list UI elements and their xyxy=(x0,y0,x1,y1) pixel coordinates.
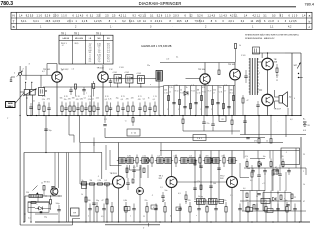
svg-text:4,2 1,1: 4,2 1,1 xyxy=(253,14,261,17)
svg-text:0,1: 0,1 xyxy=(176,57,178,59)
wires lower-left verticals xyxy=(30,202,32,222)
capacitor IF strip 6 xyxy=(227,106,230,108)
IF transformer box T102 xyxy=(126,75,133,83)
right cluster box part xyxy=(261,198,270,203)
wire IF lower rail xyxy=(43,86,160,88)
svg-text:C 31: C 31 xyxy=(219,91,223,93)
resistor IF strip 5 xyxy=(212,100,214,105)
svg-text:2,0 3: 2,0 3 xyxy=(173,14,179,17)
part rowA15 xyxy=(117,106,119,112)
part bandB10 xyxy=(189,158,195,164)
part rowA3 xyxy=(61,106,63,112)
svg-text:C 34: C 34 xyxy=(197,93,201,95)
part rowA4 xyxy=(64,107,67,109)
svg-text:1k: 1k xyxy=(256,196,258,198)
svg-text:4 103: 4 103 xyxy=(137,73,142,75)
part bottom19 xyxy=(265,207,267,213)
svg-text:1 103: 1 103 xyxy=(119,67,124,69)
part right-band5 xyxy=(270,162,272,167)
part below bus x245 xyxy=(243,120,246,122)
wire right band rail y168 xyxy=(244,167,306,169)
svg-text:0,2: 0,2 xyxy=(42,71,45,73)
part bottom8 xyxy=(154,208,157,210)
svg-text:x2: x2 xyxy=(169,91,171,93)
part bandB5 xyxy=(151,158,153,164)
wire TR102 emitter left down xyxy=(91,83,93,116)
part bandB11 xyxy=(199,158,201,164)
trimmer marks above boxes xyxy=(25,82,26,83)
right lower frame box xyxy=(281,148,300,165)
svg-text:1 W: 1 W xyxy=(109,69,113,71)
svg-text:470: 470 xyxy=(254,141,257,143)
part rowA20 xyxy=(144,106,146,112)
resistor IF strip 7 xyxy=(233,96,235,101)
bus junction dots xyxy=(27,115,28,116)
wire mid h2 xyxy=(105,137,265,139)
part bottom10 xyxy=(178,208,181,210)
svg-text:1 1 0: 1 1 0 xyxy=(37,14,43,17)
svg-text:DIAGRAM–SPRINGER: DIAGRAM–SPRINGER xyxy=(139,1,182,6)
polarized cap lower-left xyxy=(57,209,60,211)
svg-text:2: 2 xyxy=(303,171,304,173)
wire x292 vertical xyxy=(291,53,293,116)
wire IF strip drop 12 xyxy=(223,86,225,116)
right cluster verticals xyxy=(242,191,244,212)
wire antenna top vertical xyxy=(19,66,21,72)
part bandB right3 xyxy=(269,151,271,159)
svg-text:1: 1 xyxy=(200,109,201,111)
verticals mid right with resistors xyxy=(244,116,246,135)
svg-text:29,5: 29,5 xyxy=(177,20,182,23)
svg-text:C 13: C 13 xyxy=(153,96,157,98)
svg-text:6: 6 xyxy=(294,98,295,100)
svg-text:100: 100 xyxy=(164,90,167,92)
part right-band4 xyxy=(263,170,266,172)
part rowA21 xyxy=(148,107,151,109)
svg-text:25: 25 xyxy=(143,216,145,218)
svg-text:TR 201: TR 201 xyxy=(110,173,118,175)
part rowA17 xyxy=(127,106,129,112)
svg-text:0 · 1: 0 · 1 xyxy=(264,201,267,203)
svg-text:1k: 1k xyxy=(81,194,83,196)
transistor TR201 xyxy=(113,176,125,188)
svg-text:2,6 1: 2,6 1 xyxy=(67,20,73,23)
svg-text:Tb1 24,2: Tb1 24,2 xyxy=(61,69,70,71)
svg-text:10n: 10n xyxy=(263,156,266,158)
wire above transformer xyxy=(252,52,285,54)
svg-text:4 0,9 1: 4 0,9 1 xyxy=(155,20,163,23)
svg-text:R 27: R 27 xyxy=(208,90,212,92)
svg-text:1,2 0,5: 1,2 0,5 xyxy=(53,20,61,23)
svg-text:5 101: 5 101 xyxy=(241,55,246,57)
vertical x94b stub xyxy=(93,143,95,147)
svg-text:470: 470 xyxy=(68,98,71,100)
capacitor IF strip 5 xyxy=(216,102,219,104)
svg-text:WALL: WALL xyxy=(8,105,14,108)
title rule xyxy=(0,6,296,8)
cluster dots xyxy=(30,195,31,196)
part bandB7 xyxy=(165,158,171,164)
wire drop x110b xyxy=(109,150,111,166)
cap below bus x204 xyxy=(202,121,205,123)
svg-text:5: 5 xyxy=(167,109,168,111)
svg-text:250: 250 xyxy=(26,192,29,194)
label pointer box xyxy=(6,102,15,108)
wire mid h right xyxy=(240,134,306,136)
svg-text:R 10: R 10 xyxy=(175,90,179,92)
svg-text:R 23: R 23 xyxy=(121,96,125,98)
wire right band segment y158.5 xyxy=(250,158,265,160)
svg-text:1k: 1k xyxy=(180,90,182,92)
svg-text:× 2: × 2 xyxy=(262,182,264,185)
svg-text:2,2k: 2,2k xyxy=(142,156,145,158)
svg-text:470: 470 xyxy=(205,156,208,158)
part bottom14 xyxy=(214,208,217,210)
right lower cluster rail y190.5 xyxy=(240,190,265,192)
part right-band2 xyxy=(251,170,254,172)
svg-text:220: 220 xyxy=(281,156,284,158)
capacitor IF strip 3 xyxy=(194,102,197,104)
wire TR203 down xyxy=(231,187,233,222)
part rowA7 xyxy=(76,107,79,109)
part bottom13 xyxy=(206,207,208,213)
part bottom5 xyxy=(125,207,127,213)
wires to speaker xyxy=(275,96,280,98)
part rowA6 xyxy=(73,106,75,112)
parts between TR202 TR203 xyxy=(194,160,196,165)
right cluster label boxes xyxy=(246,208,253,212)
part rowA16 xyxy=(121,107,124,109)
svg-text:10n: 10n xyxy=(165,190,168,192)
small part left of antenna xyxy=(11,76,15,78)
svg-text:5,2 6: 5,2 6 xyxy=(157,14,163,17)
wire x301 vertical upper xyxy=(300,53,302,116)
boxed label 22 xyxy=(219,116,226,122)
wire TR102 down xyxy=(102,82,104,116)
svg-text:22n: 22n xyxy=(147,65,150,67)
part rowA18 xyxy=(132,106,134,112)
left frame vertical x24 xyxy=(23,153,25,223)
svg-text:6,8k: 6,8k xyxy=(175,85,178,87)
svg-text:1k: 1k xyxy=(41,183,43,185)
wire mid h1 xyxy=(183,130,240,132)
svg-text:330: 330 xyxy=(72,97,75,99)
part rowA8 xyxy=(81,106,83,112)
vertical x80 from mid xyxy=(79,143,81,185)
left outer vertical x20 xyxy=(19,75,21,225)
tuning capacitor box C1b xyxy=(30,90,35,96)
resistor IF strip 2 xyxy=(179,100,181,105)
wire IF strip drop 11 xyxy=(217,86,219,116)
speaker xyxy=(279,96,283,104)
svg-text:220: 220 xyxy=(213,90,216,92)
svg-text:470: 470 xyxy=(138,99,141,101)
svg-text:2,6 1: 2,6 1 xyxy=(229,20,235,23)
svg-text:MELLEM: MELLEM xyxy=(75,38,84,40)
bottom rail dots xyxy=(23,221,24,222)
verticals lower mid xyxy=(85,184,87,222)
svg-text:5,2 6: 5,2 6 xyxy=(45,14,51,17)
wire IF strip drop 14 xyxy=(233,86,235,116)
svg-text:1 0 1: 1 0 1 xyxy=(197,138,203,140)
svg-text:5k log: 5k log xyxy=(198,196,203,198)
dashed label box mid2 xyxy=(193,135,206,141)
svg-text:0,1: 0,1 xyxy=(92,98,94,100)
svg-text:1k: 1k xyxy=(186,87,188,89)
wire drop x106 xyxy=(105,145,107,170)
transistor TR105 xyxy=(230,69,241,80)
transistor TR104 xyxy=(200,74,210,84)
svg-text:· 1: · 1 xyxy=(285,152,287,154)
svg-text:0,5: 0,5 xyxy=(157,156,160,158)
capacitor IF strip 4 xyxy=(205,106,208,108)
svg-text:N: N xyxy=(13,14,15,18)
bottom rail xyxy=(35,221,310,223)
svg-text:22n: 22n xyxy=(224,200,227,202)
svg-text:B: B xyxy=(13,25,15,29)
svg-text:1k: 1k xyxy=(266,141,268,143)
cap below bus x213 xyxy=(211,123,214,125)
svg-text:4,2 1,1: 4,2 1,1 xyxy=(119,14,127,17)
part bandB13 xyxy=(213,158,219,164)
svg-text:1,2 0,5: 1,2 0,5 xyxy=(289,20,297,23)
svg-text:1,2 0,5: 1,2 0,5 xyxy=(94,20,102,23)
wire TR106-TR107 chain xyxy=(267,69,269,94)
svg-text:100µ: 100µ xyxy=(56,203,60,205)
svg-text:0,3: 0,3 xyxy=(178,193,181,195)
measurement table frame xyxy=(59,35,113,64)
part bandB right4 xyxy=(280,151,282,159)
svg-text:0,5: 0,5 xyxy=(105,99,107,101)
stub x219 from top rail xyxy=(218,63,220,71)
svg-text:1k: 1k xyxy=(82,180,84,182)
svg-text:1 1 0: 1 1 0 xyxy=(61,14,67,17)
svg-text:22n: 22n xyxy=(145,200,148,202)
resistor IF strip 3 xyxy=(190,104,192,109)
svg-text:2,2k: 2,2k xyxy=(98,180,101,182)
wire top rail to TR105 xyxy=(160,62,235,64)
parts between TR201 and D201 xyxy=(126,182,129,184)
svg-text:· 5: · 5 xyxy=(97,176,99,178)
svg-text:1: 1 xyxy=(211,109,212,111)
svg-text:1 1 0: 1 1 0 xyxy=(165,14,171,17)
svg-text:4,7k: 4,7k xyxy=(245,156,248,158)
part rowA13 xyxy=(106,106,108,112)
svg-text:4 101: 4 101 xyxy=(113,72,118,74)
vertical pair x55 x58 xyxy=(54,153,56,191)
part bottom7 xyxy=(146,207,148,213)
svg-text:TH: TH xyxy=(73,213,76,215)
transistor TR301 small xyxy=(51,188,58,195)
svg-text:0,4: 0,4 xyxy=(243,188,245,190)
svg-text:SPÆNDINGER MÅLT MED RØRVOLTME: SPÆNDINGER MÅLT MED RØRVOLTMETER (VEDRØR… xyxy=(245,34,299,37)
wire band feed y165 xyxy=(110,164,122,166)
svg-text:1: 1 xyxy=(130,216,131,218)
extra cluster lower-left additions xyxy=(28,202,49,204)
part below bus x183 xyxy=(182,119,184,124)
wire IF strip drop 10 xyxy=(212,86,214,116)
part rowA22 xyxy=(154,106,156,112)
diode right band xyxy=(258,163,262,167)
svg-text:17: 17 xyxy=(224,90,226,92)
svg-text:47: 47 xyxy=(153,207,155,209)
wire IF rail upper xyxy=(108,78,156,80)
wire IF strip drop 13 xyxy=(228,86,230,116)
svg-text:SPÆNDINGERNE · MÅLES ØV.: SPÆNDINGERNE · MÅLES ØV. xyxy=(245,37,275,40)
wire band rail corner x161 xyxy=(160,143,162,157)
svg-text:4,7k: 4,7k xyxy=(191,85,194,87)
wire IF strip drop 6 xyxy=(190,86,192,116)
part rowA2 xyxy=(47,107,50,109)
tiny label boxes bottom row xyxy=(124,207,130,211)
part rowA14 xyxy=(109,107,112,109)
svg-text:22: 22 xyxy=(294,197,296,199)
transistor TR102 xyxy=(98,72,108,82)
wire stubs IF boxes to lower rail xyxy=(117,83,119,87)
svg-text:22n: 22n xyxy=(64,99,67,101)
wire TR202 up xyxy=(171,151,173,178)
wire TR104 base/emitter xyxy=(186,77,201,79)
right cluster parts xyxy=(246,193,248,198)
part rowA11 xyxy=(93,106,95,112)
svg-text:1,1 4,3: 1,1 4,3 xyxy=(219,14,227,17)
vertical x94 mid xyxy=(93,138,95,153)
svg-text:4,2 1,1: 4,2 1,1 xyxy=(230,14,238,17)
wire IF strip drop 2 xyxy=(168,86,170,116)
right parts y170-190 xyxy=(251,172,253,177)
alignment table frame xyxy=(11,12,312,29)
svg-text:5,2 6: 5,2 6 xyxy=(197,14,203,17)
svg-text:470: 470 xyxy=(76,99,79,101)
wire x25 down xyxy=(24,196,26,222)
svg-text:GAMMA 405 1 376,345 MB: GAMMA 405 1 376,345 MB xyxy=(141,45,172,48)
svg-text:4 102: 4 102 xyxy=(125,72,130,74)
verticals between TR202 TR203 xyxy=(194,151,196,201)
part bandB15 xyxy=(229,158,235,164)
small parts between TR102 and boxes xyxy=(109,80,112,82)
part bandB4 xyxy=(142,158,148,164)
svg-text:22n: 22n xyxy=(221,156,224,158)
oscillator parts between TR101 TR102 xyxy=(69,89,72,91)
extra parts right above bus xyxy=(287,108,289,116)
svg-text:9,2 5,5: 9,2 5,5 xyxy=(26,14,34,17)
svg-text:0,1: 0,1 xyxy=(84,97,86,99)
part bottom6 xyxy=(132,208,135,210)
switch contacts xyxy=(298,73,299,74)
part rowA19 xyxy=(138,107,141,109)
frame junction dot x46 xyxy=(45,152,46,153)
cluster top parts xyxy=(43,186,45,191)
part rowA9 xyxy=(84,107,87,109)
capacitor IF strip 1 xyxy=(172,102,175,104)
oscillator coil box xyxy=(39,88,45,96)
svg-text:1,1 4,3: 1,1 4,3 xyxy=(76,14,84,17)
svg-text:x: x xyxy=(150,84,151,86)
svg-text:220: 220 xyxy=(188,200,191,202)
transistor TR101 xyxy=(52,72,62,82)
wire TR202 down xyxy=(171,187,173,222)
svg-text:×: × xyxy=(284,197,285,200)
svg-text:0,1: 0,1 xyxy=(153,99,155,101)
cluster outline box lower-left xyxy=(28,202,49,212)
svg-text:2 1: 2 1 xyxy=(89,61,92,63)
part below bus x232 xyxy=(231,120,233,125)
ganged tuning arrow xyxy=(23,89,37,96)
svg-text:0,5: 0,5 xyxy=(105,180,108,182)
part right-band3 xyxy=(258,162,260,167)
antenna coil with arrow xyxy=(19,72,22,75)
svg-text:LANGB: LANGB xyxy=(62,37,69,40)
svg-text:470: 470 xyxy=(126,98,129,100)
svg-text:1k: 1k xyxy=(208,85,210,87)
wire IF strip drop 3 xyxy=(173,86,175,116)
wire transformer taps xyxy=(259,61,263,63)
small parts output mid xyxy=(244,75,247,77)
output transformer T105 xyxy=(249,58,251,95)
svg-text:29,5: 29,5 xyxy=(46,20,51,23)
pot assemblies lower mid xyxy=(194,201,224,203)
svg-text:6,8k: 6,8k xyxy=(80,98,83,100)
svg-text:6,4 1: 6,4 1 xyxy=(21,20,27,23)
parts under tuning caps xyxy=(29,106,32,108)
svg-text:4,7: 4,7 xyxy=(277,193,279,195)
svg-text:2n: 2n xyxy=(33,101,35,103)
transistor TR203 xyxy=(227,177,238,188)
svg-text:330: 330 xyxy=(88,200,91,202)
svg-text:0,1: 0,1 xyxy=(28,218,31,220)
part bandB3 xyxy=(136,158,138,164)
capacitor IF strip 2 xyxy=(183,106,186,108)
part bottom3 xyxy=(102,208,105,210)
wire IF strip drop 5 xyxy=(184,86,186,116)
svg-text:6,4 1: 6,4 1 xyxy=(33,20,39,23)
dashed label box mid1 xyxy=(127,129,140,136)
wire TR201 up xyxy=(118,143,120,177)
wire frame top left xyxy=(24,152,102,154)
resistor IF strip 4 xyxy=(201,96,203,101)
svg-text:4,7k: 4,7k xyxy=(47,98,50,100)
wire TR105 down xyxy=(234,80,236,116)
part bottom2 xyxy=(96,207,98,213)
svg-text:47: 47 xyxy=(303,201,305,203)
svg-text:2: 2 xyxy=(88,216,89,218)
cap mid x46 xyxy=(45,116,47,153)
wire x296 vertical xyxy=(295,148,297,168)
svg-text:R 29: R 29 xyxy=(180,93,184,95)
part bottom22 xyxy=(293,208,296,210)
wire IF strip drop 4 xyxy=(179,86,181,116)
wire TR101 emitter down xyxy=(56,82,58,116)
wire pot row lower-left xyxy=(25,195,62,197)
part bottom11 xyxy=(189,207,191,213)
svg-text:0,5: 0,5 xyxy=(189,156,192,158)
wire mid band rail xyxy=(160,150,300,152)
svg-text:25µ: 25µ xyxy=(44,217,47,219)
wire x301 lower segment xyxy=(300,137,302,222)
svg-text:22n: 22n xyxy=(207,123,210,125)
svg-text:7,5 8,2 4: 7,5 8,2 4 xyxy=(195,20,205,23)
svg-text:6,8k: 6,8k xyxy=(127,156,130,158)
svg-text:22n: 22n xyxy=(219,87,222,89)
svg-text:780.3: 780.3 xyxy=(1,1,14,7)
svg-text:1,1 4,3: 1,1 4,3 xyxy=(208,14,216,17)
svg-text:25: 25 xyxy=(303,154,305,156)
part bandB right1 xyxy=(243,151,245,159)
part bottom16 xyxy=(238,208,241,210)
pot wiper circle mid band xyxy=(146,159,150,163)
wire IF strip drop 1 xyxy=(163,86,165,116)
part bottom1 xyxy=(88,208,91,210)
